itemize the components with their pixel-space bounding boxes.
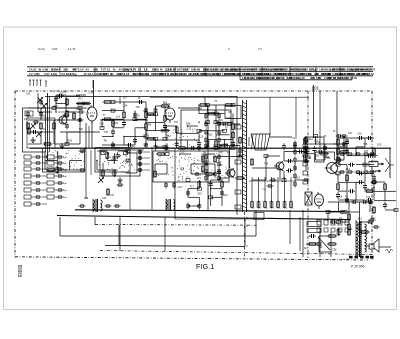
svg-text:FJ/7: FJ/7 bbox=[367, 69, 373, 72]
svg-text:T20: T20 bbox=[79, 128, 84, 131]
svg-text:CA:52: CA:52 bbox=[170, 73, 178, 76]
svg-text:R30: R30 bbox=[315, 154, 320, 157]
svg-text:T6: T6 bbox=[137, 97, 140, 100]
svg-text:5,4W: 5,4W bbox=[287, 77, 293, 80]
svg-text:CA:52: CA:52 bbox=[248, 77, 256, 80]
svg-text:3,5kg: 3,5kg bbox=[123, 69, 130, 72]
svg-text:R17: R17 bbox=[78, 98, 83, 101]
svg-text:B1: B1 bbox=[86, 102, 90, 106]
svg-text:S25: S25 bbox=[377, 143, 382, 146]
svg-text:L27: L27 bbox=[372, 217, 377, 220]
svg-text:2.3.4: 2.3.4 bbox=[294, 77, 300, 80]
svg-text:C11: C11 bbox=[316, 141, 321, 144]
svg-text:T4: T4 bbox=[350, 228, 353, 231]
svg-text:FJ/7: FJ/7 bbox=[191, 73, 197, 76]
svg-text:0,5: 0,5 bbox=[258, 73, 262, 76]
svg-text:4h: 4h bbox=[113, 69, 116, 72]
svg-text:T12: T12 bbox=[167, 135, 172, 138]
svg-text:1,5: 1,5 bbox=[334, 69, 338, 72]
svg-text:L13: L13 bbox=[346, 168, 351, 171]
svg-text:C27: C27 bbox=[348, 132, 353, 135]
svg-text:9: 9 bbox=[286, 208, 288, 210]
svg-text:1.6: 1.6 bbox=[122, 73, 126, 76]
svg-text:T25: T25 bbox=[104, 131, 109, 134]
svg-text:0,5: 0,5 bbox=[328, 77, 332, 80]
svg-text:T2: T2 bbox=[145, 131, 148, 134]
svg-text:C27: C27 bbox=[199, 130, 204, 133]
svg-text:2.3.4: 2.3.4 bbox=[217, 69, 223, 72]
svg-text:2,5: 2,5 bbox=[107, 69, 111, 72]
svg-text:7.2: 7.2 bbox=[144, 69, 148, 72]
svg-text:5,4W: 5,4W bbox=[205, 73, 211, 76]
svg-text:T17: T17 bbox=[190, 185, 195, 188]
svg-text:T26: T26 bbox=[363, 143, 368, 146]
svg-text:3A7: 3A7 bbox=[321, 73, 326, 76]
svg-text:FJ/7: FJ/7 bbox=[216, 73, 222, 76]
svg-text:1.6: 1.6 bbox=[165, 73, 169, 76]
svg-text:1.6: 1.6 bbox=[345, 69, 349, 72]
svg-text:S27: S27 bbox=[123, 97, 128, 100]
svg-text:5: 5 bbox=[292, 208, 294, 210]
svg-text:T3: T3 bbox=[214, 100, 217, 103]
svg-text:3A7: 3A7 bbox=[177, 69, 182, 72]
svg-text:C24: C24 bbox=[143, 144, 148, 147]
svg-text:T18: T18 bbox=[345, 139, 350, 142]
svg-text:3,5kg: 3,5kg bbox=[51, 73, 58, 76]
svg-text:T2: T2 bbox=[333, 130, 336, 133]
svg-text:9: 9 bbox=[279, 208, 281, 210]
svg-text:CA:52: CA:52 bbox=[179, 73, 187, 76]
svg-text:R11: R11 bbox=[309, 138, 314, 141]
svg-text:S26: S26 bbox=[325, 156, 330, 159]
svg-text:S25: S25 bbox=[226, 117, 231, 120]
svg-text:7: 7 bbox=[260, 208, 262, 210]
svg-text:S10: S10 bbox=[115, 147, 120, 150]
svg-text:T10: T10 bbox=[174, 121, 179, 124]
svg-text:4h: 4h bbox=[111, 73, 114, 76]
svg-text:4h: 4h bbox=[251, 73, 254, 76]
svg-text:442: 442 bbox=[18, 275, 23, 278]
svg-text:2.3.4: 2.3.4 bbox=[252, 69, 258, 72]
svg-text:2,5: 2,5 bbox=[118, 73, 122, 76]
svg-text:T11: T11 bbox=[319, 246, 324, 249]
svg-text:R9: R9 bbox=[148, 123, 152, 126]
svg-text:1.1.74: 1.1.74 bbox=[68, 47, 76, 51]
svg-text:5,4W: 5,4W bbox=[265, 77, 271, 80]
svg-text:T5: T5 bbox=[137, 115, 140, 118]
svg-text:0,5: 0,5 bbox=[298, 69, 302, 72]
svg-text:T24: T24 bbox=[366, 196, 371, 199]
svg-text:L1: L1 bbox=[345, 195, 348, 198]
svg-text:7µF: 7µF bbox=[63, 197, 67, 199]
svg-text:5µF: 5µF bbox=[63, 157, 67, 159]
svg-text:P 10 006: P 10 006 bbox=[351, 265, 365, 269]
svg-text:S27: S27 bbox=[304, 247, 309, 250]
svg-text:0,5: 0,5 bbox=[242, 69, 246, 72]
svg-text:T7: T7 bbox=[227, 152, 230, 155]
svg-text:1,5: 1,5 bbox=[244, 73, 248, 76]
svg-text:4h: 4h bbox=[38, 69, 41, 72]
svg-text:3A7: 3A7 bbox=[229, 73, 234, 76]
svg-text:9µF: 9µF bbox=[63, 176, 67, 178]
svg-text:R19: R19 bbox=[216, 134, 221, 137]
svg-text:4h: 4h bbox=[282, 77, 285, 80]
svg-text:9: 9 bbox=[266, 208, 268, 210]
svg-text:4h: 4h bbox=[258, 77, 261, 80]
svg-text:C6: C6 bbox=[339, 196, 343, 199]
svg-text:R13: R13 bbox=[223, 194, 228, 197]
svg-text:C43: C43 bbox=[102, 198, 107, 200]
svg-text:L11: L11 bbox=[365, 188, 369, 191]
svg-text:R29: R29 bbox=[67, 139, 72, 142]
svg-text:7.2: 7.2 bbox=[94, 73, 98, 76]
svg-text:101: 101 bbox=[312, 86, 320, 91]
svg-text:L16: L16 bbox=[205, 160, 210, 163]
svg-text:T7: T7 bbox=[53, 91, 56, 94]
svg-text:T25: T25 bbox=[136, 106, 141, 109]
svg-text:4.25: 4.25 bbox=[52, 47, 58, 51]
svg-text:2.3.4: 2.3.4 bbox=[143, 73, 149, 76]
svg-text:A4: A4 bbox=[86, 69, 90, 72]
svg-text:FJ/7: FJ/7 bbox=[264, 73, 270, 76]
svg-text:0,5: 0,5 bbox=[131, 69, 135, 72]
svg-text:S18: S18 bbox=[166, 103, 171, 106]
svg-text:1.7/8: 1.7/8 bbox=[277, 77, 283, 80]
svg-text:C29: C29 bbox=[113, 122, 118, 125]
svg-text:5,4W: 5,4W bbox=[194, 69, 200, 72]
svg-text:R6: R6 bbox=[104, 140, 108, 143]
svg-text:L20: L20 bbox=[199, 135, 204, 138]
svg-text:1.7/8: 1.7/8 bbox=[166, 69, 172, 72]
svg-text:C19: C19 bbox=[292, 137, 297, 140]
svg-text:FJ/7: FJ/7 bbox=[101, 69, 107, 72]
svg-text:5,4W: 5,4W bbox=[275, 73, 281, 76]
svg-text:11-7a: 11-7a bbox=[38, 47, 45, 51]
svg-text:7.2: 7.2 bbox=[29, 73, 33, 76]
svg-text:M4: M4 bbox=[93, 69, 97, 72]
svg-text:2: 2 bbox=[273, 208, 275, 210]
svg-text:0,5: 0,5 bbox=[52, 69, 56, 72]
svg-text:L14: L14 bbox=[116, 115, 121, 118]
svg-text:4h: 4h bbox=[160, 69, 163, 72]
svg-text:1.6: 1.6 bbox=[68, 73, 72, 76]
svg-text:T8: T8 bbox=[165, 144, 168, 147]
svg-text:C12: C12 bbox=[187, 128, 192, 131]
svg-text:2,5: 2,5 bbox=[63, 69, 67, 72]
svg-text:FJ/7: FJ/7 bbox=[73, 69, 79, 72]
svg-text:52N: 52N bbox=[100, 73, 105, 76]
svg-text:OP: OP bbox=[228, 110, 232, 114]
svg-text:3µF: 3µF bbox=[63, 169, 67, 171]
svg-text:CA:52: CA:52 bbox=[367, 73, 375, 76]
svg-text:C26: C26 bbox=[332, 248, 337, 251]
svg-text:7.2: 7.2 bbox=[355, 69, 359, 72]
svg-text:S12: S12 bbox=[358, 217, 363, 220]
svg-text:R26: R26 bbox=[186, 123, 191, 126]
svg-text:C47: C47 bbox=[110, 195, 115, 197]
svg-text:1.6: 1.6 bbox=[357, 73, 361, 76]
svg-text:3,5kg: 3,5kg bbox=[309, 69, 316, 72]
svg-text:S10: S10 bbox=[63, 91, 68, 94]
svg-text:4h: 4h bbox=[328, 73, 331, 76]
svg-text:S20: S20 bbox=[166, 149, 171, 152]
svg-text:5,4W: 5,4W bbox=[42, 69, 48, 72]
svg-text:S15: S15 bbox=[131, 146, 136, 149]
svg-text:7: 7 bbox=[253, 208, 255, 210]
svg-text:4: 4 bbox=[246, 244, 248, 248]
svg-text:1.6: 1.6 bbox=[274, 69, 278, 72]
svg-text:17 1/4: 17 1/4 bbox=[343, 259, 350, 261]
svg-text:C14: C14 bbox=[89, 92, 94, 95]
svg-text:S18: S18 bbox=[305, 151, 310, 154]
svg-text:5µF: 5µF bbox=[63, 183, 67, 185]
svg-text:CA:52: CA:52 bbox=[29, 69, 37, 72]
svg-text:1.7/8: 1.7/8 bbox=[306, 73, 312, 76]
svg-text:1,5: 1,5 bbox=[211, 69, 215, 72]
svg-text:2.3.4: 2.3.4 bbox=[78, 69, 84, 72]
svg-text:L24: L24 bbox=[123, 105, 128, 108]
svg-text:C15: C15 bbox=[180, 151, 185, 154]
svg-text:3: 3 bbox=[246, 224, 248, 228]
svg-text:S25: S25 bbox=[143, 110, 148, 113]
svg-text:R15: R15 bbox=[139, 149, 144, 152]
svg-text:R9: R9 bbox=[219, 164, 223, 167]
svg-text:7µF: 7µF bbox=[63, 163, 67, 165]
svg-text:2,5: 2,5 bbox=[205, 69, 209, 72]
svg-text:FIG.1: FIG.1 bbox=[196, 264, 215, 271]
svg-text:L15: L15 bbox=[197, 177, 202, 180]
svg-text:T8: T8 bbox=[225, 126, 228, 129]
svg-text:+C17: +C17 bbox=[177, 187, 183, 189]
svg-text:4: 4 bbox=[228, 47, 230, 51]
svg-text:FJ/7: FJ/7 bbox=[348, 73, 354, 76]
svg-text:T27: T27 bbox=[74, 107, 79, 110]
svg-text:9µF: 9µF bbox=[63, 190, 67, 192]
svg-text:2.3.4: 2.3.4 bbox=[340, 73, 346, 76]
svg-text:2,5: 2,5 bbox=[303, 69, 307, 72]
svg-text:1,5: 1,5 bbox=[327, 69, 331, 72]
svg-text:T26: T26 bbox=[264, 163, 269, 166]
svg-text:S3: S3 bbox=[180, 167, 184, 171]
svg-text:FJ/7: FJ/7 bbox=[45, 73, 51, 76]
svg-text:CA:52: CA:52 bbox=[290, 69, 298, 72]
svg-text:N1: N1 bbox=[57, 96, 61, 100]
svg-text:5,4W: 5,4W bbox=[296, 73, 302, 76]
svg-text:S30: S30 bbox=[100, 122, 105, 125]
svg-text:S10: S10 bbox=[41, 115, 46, 118]
svg-text:7.3: 7.3 bbox=[258, 47, 262, 51]
svg-text:T27: T27 bbox=[373, 160, 378, 163]
svg-text:1.7/8: 1.7/8 bbox=[158, 73, 164, 76]
svg-text:52N: 52N bbox=[154, 69, 159, 72]
svg-text:R30: R30 bbox=[321, 151, 326, 154]
svg-text:S25: S25 bbox=[197, 193, 202, 196]
svg-text:L21: L21 bbox=[307, 157, 312, 160]
svg-text:C31: C31 bbox=[262, 189, 267, 191]
svg-text:7.2: 7.2 bbox=[185, 69, 189, 72]
svg-text:1,5: 1,5 bbox=[34, 73, 38, 76]
svg-text:T6: T6 bbox=[214, 110, 217, 113]
svg-text:T7: T7 bbox=[103, 114, 106, 117]
svg-text:CA:52: CA:52 bbox=[350, 77, 358, 80]
svg-text:2,5: 2,5 bbox=[284, 73, 288, 76]
svg-text:0,5: 0,5 bbox=[344, 77, 348, 80]
svg-text:C49: C49 bbox=[84, 198, 89, 200]
svg-text:3,5kg: 3,5kg bbox=[265, 69, 272, 72]
svg-text:CA:52: CA:52 bbox=[280, 69, 288, 72]
svg-text:C19: C19 bbox=[26, 93, 31, 96]
svg-text:R9: R9 bbox=[372, 187, 376, 190]
svg-text:4h: 4h bbox=[361, 69, 364, 72]
svg-text:T28: T28 bbox=[218, 151, 223, 154]
svg-text:R23: R23 bbox=[208, 134, 213, 137]
svg-text:0,5: 0,5 bbox=[310, 77, 314, 80]
svg-text:C16: C16 bbox=[357, 133, 362, 136]
svg-text:FJ/7: FJ/7 bbox=[338, 69, 344, 72]
